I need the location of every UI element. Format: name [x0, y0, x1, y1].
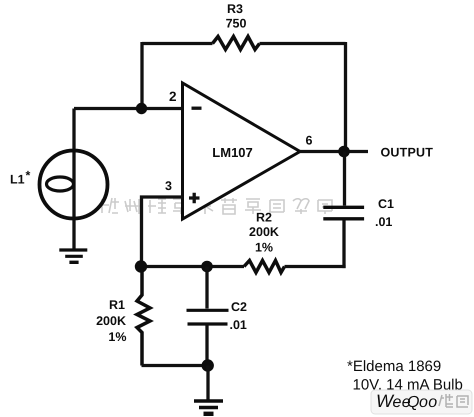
ground (bottom, under C2/R1) [194, 401, 223, 414]
wire: output from pin 6 apex [299, 150, 368, 153]
resistor R1 [137, 267, 150, 366]
svg-text:.01: .01 [375, 215, 392, 229]
svg-text:3: 3 [165, 179, 172, 193]
svg-text:*Eldema 1869: *Eldema 1869 [347, 358, 441, 375]
wire: lamp vertical lead [72, 109, 75, 250]
capacitor C2 [187, 310, 229, 324]
svg-text:R1: R1 [109, 298, 125, 312]
wire: lower rail left segment (node B to R2) [142, 265, 245, 268]
svg-text:1%: 1% [108, 330, 126, 344]
svg-text:L1: L1 [10, 173, 25, 187]
resistor R2 [244, 261, 285, 273]
resistor R3 [213, 37, 260, 50]
wire: top feedback rail, left segment [142, 42, 213, 45]
node A: junction of feedback and pin 2 [136, 103, 147, 114]
node B: lower-left junction [135, 260, 147, 272]
svg-text:*: * [26, 169, 31, 183]
svg-text:R3: R3 [227, 2, 243, 16]
svg-text:C1: C1 [378, 197, 394, 211]
ground (under lamp L1) [59, 250, 87, 262]
wire: C2 top lead [205, 267, 208, 309]
node: C2 top junction [201, 261, 213, 273]
svg-text:R2: R2 [256, 211, 272, 225]
wire: bottom link R1 to C2 node [142, 364, 209, 367]
svg-text:1%: 1% [255, 241, 273, 255]
wire: lamp to inverting input pin 2 [74, 107, 183, 110]
node: output junction [338, 146, 350, 158]
watermark gray company text band [100, 198, 332, 214]
wire: feedback left vertical drop to node A [140, 42, 143, 109]
watermark gray glyphs [439, 394, 468, 407]
wire: C1 bottom down and into lower rail corner [342, 221, 345, 269]
svg-text:Q: Q [407, 394, 419, 411]
watermark badge box [371, 390, 472, 414]
svg-text:750: 750 [226, 17, 247, 31]
svg-text:LM107: LM107 [212, 145, 252, 160]
non-inverting input plus sign [189, 193, 200, 203]
capacitor C1 [323, 207, 364, 219]
node: bottom junction [202, 359, 214, 371]
svg-text:oo: oo [419, 394, 438, 411]
lamp L1 [40, 151, 108, 219]
svg-text:200K: 200K [249, 225, 279, 239]
wire: down to ground [206, 366, 209, 400]
op-amp U1 LM107 [183, 83, 301, 219]
wire: C2 bottom lead [205, 326, 208, 366]
svg-text:OUTPUT: OUTPUT [381, 146, 434, 160]
svg-text:6: 6 [306, 134, 313, 148]
wire: output node down to C1 [343, 152, 346, 206]
wire: lower rail right segment (R2 to C1 corner) [285, 265, 346, 268]
svg-text:200K: 200K [96, 314, 126, 328]
svg-text:C2: C2 [231, 300, 247, 314]
svg-text:2: 2 [169, 89, 177, 104]
svg-text:.01: .01 [230, 318, 247, 332]
wire: feedback right vertical drop to output node [344, 42, 347, 152]
wire: top feedback rail, right segment [260, 42, 346, 45]
inverting input minus sign [192, 107, 202, 110]
wire: pin 3 over to lower-left node B [142, 197, 183, 267]
